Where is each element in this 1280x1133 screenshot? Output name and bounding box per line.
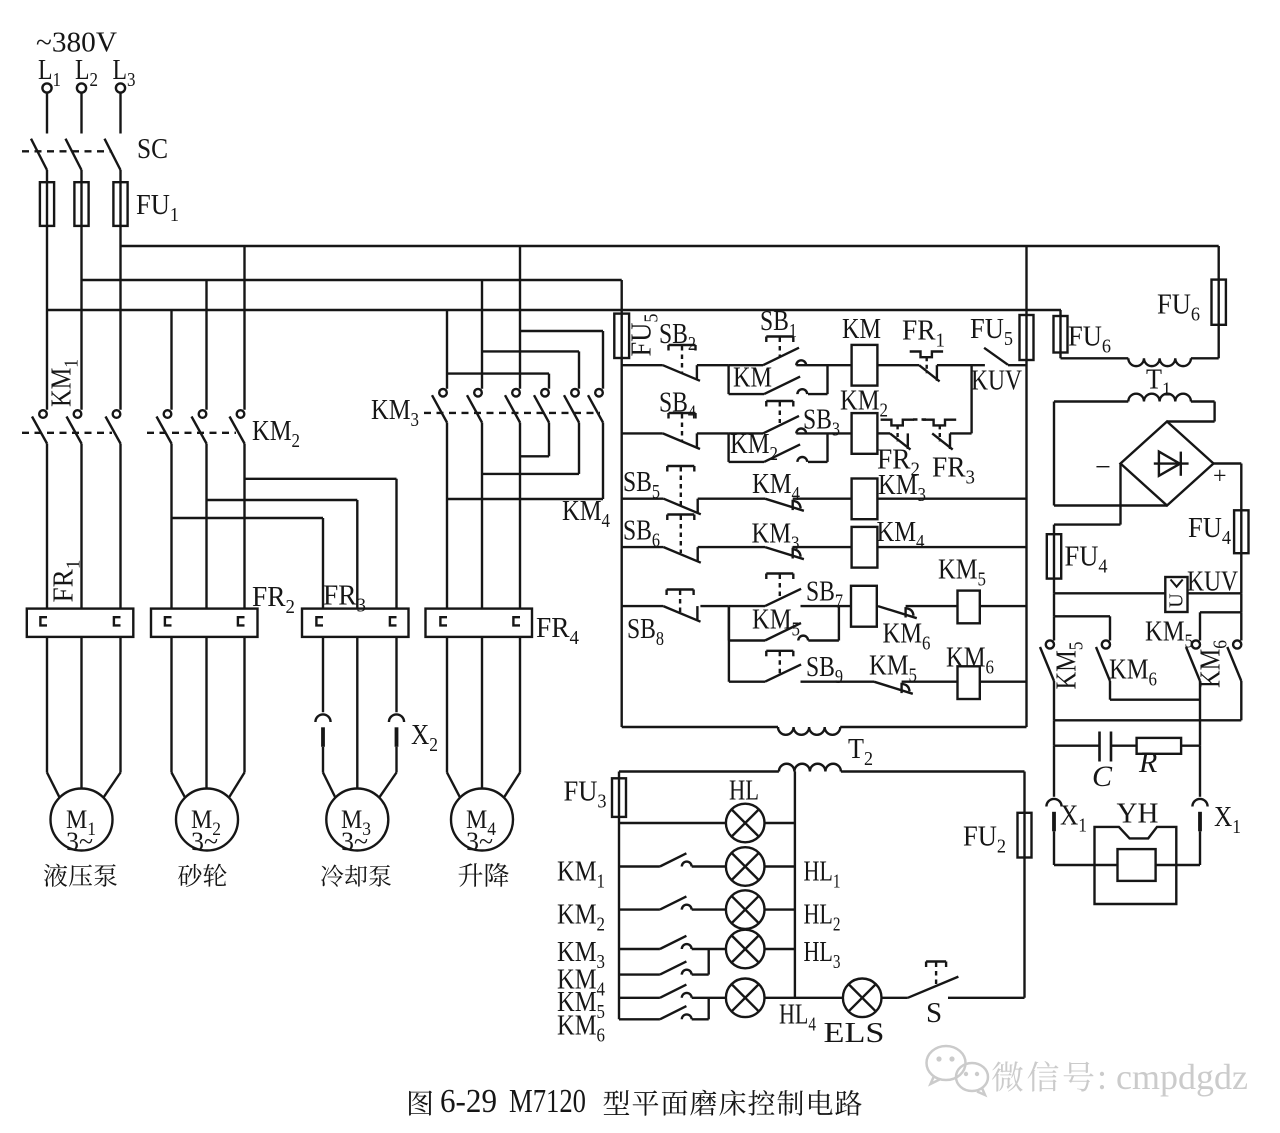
wire bus1 to FU5 right	[1025, 246, 1027, 315]
wire KM2 out 3	[243, 444, 245, 609]
wire KM4 out 2	[578, 423, 580, 474]
wire SB5 to KM4 interlock	[698, 498, 765, 500]
KM3 KM4 linkage	[424, 412, 600, 414]
wire L2 drop	[80, 93, 82, 134]
fuse FU5 right	[1025, 315, 1027, 360]
svg-text:3~: 3~	[191, 827, 218, 856]
svg-text:KM: KM	[842, 313, 881, 345]
transformer T2 secondary	[779, 764, 841, 772]
wire bridge minus to FU4 left	[1119, 464, 1121, 525]
contactor KM3-KM4 pole 3	[512, 389, 520, 397]
connector X1 left	[1046, 799, 1061, 807]
wire HL4 to ELS	[765, 997, 843, 999]
svg-text:KUV: KUV	[1187, 566, 1238, 598]
stop button SB4	[663, 433, 700, 449]
wire coil KM5 to rail	[980, 605, 1027, 607]
switch SC pole 3	[105, 139, 121, 170]
svg-text:KM: KM	[733, 362, 772, 394]
wire SB1 to coil KM	[729, 364, 763, 366]
thermal contact FR2	[890, 433, 911, 449]
contact KM6 chuck left	[1102, 640, 1110, 648]
svg-text:3~: 3~	[466, 827, 493, 856]
node rung1-rung2 tie	[970, 365, 972, 433]
control bottom rail	[622, 726, 778, 728]
wire FU4 right down	[1240, 553, 1242, 593]
wire rung2 left	[622, 432, 663, 434]
svg-text:3~: 3~	[341, 827, 368, 856]
motor M4 with wires	[446, 637, 448, 773]
coil left rung5	[851, 586, 877, 627]
wire KM3 out 2	[481, 423, 483, 609]
wire KM2 branch 3	[245, 478, 397, 480]
wire bus to KM3 pole3	[519, 246, 521, 389]
wire KM4 pole2 feed	[482, 350, 579, 352]
wire bus to KM2 pole3	[243, 246, 245, 410]
switch SC pole 2	[66, 139, 82, 170]
contactor KM1 pole 1	[39, 410, 47, 418]
wire T1 sec right to bridge	[1213, 402, 1215, 422]
lamp HL rung	[619, 822, 726, 824]
svg-text:HL: HL	[729, 775, 759, 807]
thermal relay FR1	[27, 609, 134, 637]
lamp HL	[726, 804, 765, 843]
wire rung1 left	[622, 364, 663, 366]
wire L1 to KM1	[46, 226, 48, 410]
lamp ELS	[843, 979, 882, 1018]
start button SB3	[763, 416, 799, 434]
watermark text	[992, 1061, 1023, 1091]
wire KM1 out 3	[119, 444, 121, 609]
aux contact KM2 self-hold	[727, 433, 729, 462]
motor M3 with wires	[356, 637, 358, 789]
wire bus to KM3 pole2	[481, 280, 483, 389]
svg-text:C: C	[1092, 760, 1113, 793]
svg-text:−: −	[1095, 452, 1111, 483]
undervoltage contact KUV	[984, 348, 1008, 365]
caption figure number	[409, 1090, 432, 1115]
label hydraulic pump	[44, 864, 67, 887]
stop button SB6	[664, 547, 701, 563]
wire L3 to KM1	[119, 226, 121, 410]
contact KM5 lamp	[619, 997, 660, 999]
coil KM5	[958, 591, 980, 624]
wire X1 left to chuck	[1053, 831, 1055, 865]
svg-text:ELS: ELS	[824, 1017, 885, 1049]
wire KM5 right bottom	[1199, 681, 1201, 720]
fuse FU1 pole 1	[46, 182, 48, 226]
stop button SB2	[663, 365, 700, 381]
wire R to right	[1181, 745, 1200, 747]
wire KM3 out 3	[519, 423, 521, 609]
fuse FU6 right	[1217, 280, 1219, 325]
connector X1 right	[1192, 799, 1207, 807]
contact KM2 lamp	[619, 908, 660, 910]
lamp HL2	[692, 908, 726, 910]
start button SB7	[765, 589, 801, 606]
svg-text:SC: SC	[137, 133, 168, 165]
wire KM4 pole3 feed	[520, 330, 603, 332]
wire KM1 out 2	[80, 444, 82, 609]
wire to X1 right	[1199, 746, 1201, 797]
contact KM1 lamp	[619, 865, 660, 867]
watermark wechat icon	[927, 1046, 989, 1095]
chuck YH coil	[1118, 849, 1156, 881]
wire FR1 to node	[937, 364, 985, 366]
bus L2 middle	[82, 279, 622, 281]
wire KM4 lamp join	[692, 973, 709, 975]
wire SB3 to coil KM2	[729, 432, 763, 434]
wire bus to KM3 pole1	[446, 310, 448, 389]
wire rung3 left	[622, 498, 664, 500]
connector X2 left pole	[322, 637, 324, 712]
relay KUV rung	[1054, 592, 1165, 594]
chuck YH body	[1095, 827, 1177, 904]
contactor KM1 pole 3	[113, 410, 121, 418]
start button SB9	[765, 664, 801, 681]
bus L3 top	[121, 245, 1219, 247]
wire KM2 branch 2	[207, 499, 358, 501]
relay coil KUV	[1165, 577, 1187, 612]
svg-text:6-29: 6-29	[440, 1083, 497, 1120]
wire KM6 lamp join	[692, 1018, 709, 1020]
contact KM3 lamp	[619, 948, 660, 950]
contactor KM3-KM4 pole 2	[474, 389, 482, 397]
svg-text:S: S	[926, 997, 942, 1029]
lamp HL3	[692, 948, 726, 950]
wire SB8 to branch	[700, 605, 729, 607]
wire KM2 branch 1	[172, 517, 324, 519]
contactor KM3-KM4 pole 4	[541, 389, 549, 397]
wire bus3 to FU6 left	[1059, 310, 1061, 316]
terminal L1	[42, 83, 51, 92]
transformer T1 primary	[1061, 357, 1129, 359]
wire to coil KM4	[793, 546, 852, 548]
connector X2 right pole	[395, 637, 397, 712]
wire FU2 bottom	[1023, 858, 1025, 998]
fuse FU1 pole 3	[119, 182, 121, 226]
wire right pair top	[1240, 593, 1242, 612]
switch S	[908, 977, 959, 998]
wire to coil KM3	[793, 498, 852, 500]
wire coil KM4 to rail	[877, 546, 1026, 548]
svg-text:+: +	[1213, 464, 1227, 490]
KM2 linkage	[147, 432, 236, 434]
wire C to R	[1111, 745, 1137, 747]
aux contact KM self-hold	[727, 365, 729, 394]
chuck supply rung	[1054, 719, 1241, 721]
fuse FU5 left	[621, 314, 623, 358]
wire KM4 out 1	[548, 423, 550, 457]
wire SB7 to coil	[729, 605, 765, 607]
aux contact KM5 self-hold	[728, 606, 730, 640]
motor M2 with wires	[170, 637, 172, 773]
wire FU6 right to T1	[1217, 325, 1219, 359]
contactor KM2 pole 3	[237, 410, 245, 418]
wire KM3 out 1	[446, 423, 448, 609]
wire FU4 left down	[1053, 579, 1055, 594]
wire SB9 to KM5 interlock	[801, 681, 875, 683]
interlock contact KM3	[765, 547, 804, 559]
wire FU6 left to T1	[1059, 353, 1061, 359]
contactor KM2 pole 2	[199, 410, 207, 418]
wire coil KM to FR1	[877, 364, 919, 366]
wire SB4 to branch	[697, 432, 729, 434]
wire KM2 out 1	[170, 444, 172, 609]
wire KM2 out 2	[205, 444, 207, 609]
wire ELS to S	[882, 997, 908, 999]
resistor R	[1137, 738, 1182, 754]
wire HL out	[765, 822, 795, 824]
link FR2-FR3	[913, 418, 926, 420]
control right rail	[1025, 360, 1027, 727]
wire coil KM6 to rail	[980, 681, 1027, 683]
bridge rectifier	[1121, 422, 1214, 506]
transformer T2 primary	[778, 727, 840, 735]
coil KM	[852, 345, 878, 386]
wire S to FU2	[948, 997, 1025, 999]
label lift	[459, 863, 483, 887]
motor M1 with wires	[46, 637, 48, 773]
interlock contact KM6	[877, 605, 878, 607]
contact KM6 chuck right	[1233, 640, 1241, 648]
wire coil KM3 to rail	[877, 498, 1026, 500]
start button SB1	[763, 348, 799, 366]
contactor KM1 pole 2	[74, 410, 82, 418]
coil KM3	[852, 479, 878, 520]
fuse FU6 left	[1059, 316, 1061, 353]
wire KM4 pole1 feed	[447, 372, 549, 374]
wire rung6 left	[729, 681, 765, 683]
terminal L2	[77, 83, 86, 92]
wire to RC branch	[1053, 720, 1055, 745]
wire KUV to KM5 left top	[1053, 593, 1055, 616]
caption title	[604, 1090, 630, 1115]
control left rail	[621, 358, 623, 727]
switch SC linkage	[22, 150, 112, 152]
wire to coil KM6	[902, 681, 958, 683]
contact KM5 chuck left	[1046, 640, 1054, 648]
KM1 linkage	[22, 432, 112, 434]
wire L3 drop	[119, 93, 121, 134]
wire KM6 right bottom	[1240, 681, 1242, 720]
fuse FU1 pole 2	[80, 182, 82, 226]
wire X1 right to chuck	[1199, 831, 1201, 865]
stop button SB8	[663, 606, 700, 622]
wire SB6 to KM3 interlock	[698, 546, 765, 548]
wire KM6 to coil KM5	[906, 605, 958, 607]
fuse FU4 right	[1240, 510, 1242, 553]
bus L1 lower	[47, 309, 1061, 311]
contactor KM3-KM4 pole 6	[595, 389, 603, 397]
wire rung5 left	[622, 605, 664, 607]
interlock contact KM4	[765, 499, 804, 511]
wire FR3 up to rung1	[950, 432, 972, 434]
terminal L3	[116, 83, 125, 92]
stop button SB5	[664, 499, 701, 515]
svg-text:3~: 3~	[66, 827, 93, 856]
wire KM1 out 1	[46, 444, 48, 609]
lamp HL4	[692, 997, 726, 999]
fuse FU2	[1023, 813, 1025, 858]
fuse FU4 left	[1053, 534, 1055, 578]
svg-text:~380V: ~380V	[36, 27, 117, 59]
coil KM2	[852, 413, 878, 454]
contactor KM3-KM4 pole 5	[571, 389, 579, 397]
thermal relay FR4	[426, 609, 533, 637]
coil KM6	[958, 666, 980, 699]
wire FU2 top	[1023, 772, 1025, 813]
wire rung4 left	[622, 546, 664, 548]
bridge diode symbol	[1154, 462, 1189, 464]
wire T1 sec left to bridge	[1053, 402, 1055, 506]
lamp HL1	[692, 865, 726, 867]
svg-text:YH: YH	[1117, 798, 1159, 830]
lamp common vertical	[794, 772, 796, 998]
branch vertical rung5-rung6	[728, 606, 730, 682]
wire to X1 left	[1053, 746, 1055, 797]
wire KM6 left bottom	[1109, 681, 1111, 700]
wire bus to KM2 pole2	[205, 280, 207, 410]
coil KM4	[852, 527, 878, 568]
transformer T1 secondary	[1054, 400, 1128, 402]
contact KM5 chuck right	[1192, 640, 1200, 648]
wire bus to KM2 pole1	[170, 310, 172, 410]
wire SB2 to branch	[697, 364, 729, 366]
svg-text:KUV: KUV	[971, 365, 1022, 397]
fuse FU3	[618, 778, 620, 817]
wire KM5 left bottom	[1053, 681, 1055, 720]
wire KM4 out 3	[602, 423, 604, 500]
thermal relay FR3	[302, 609, 409, 637]
lamp feed rail	[619, 770, 779, 772]
interlock contact KM5	[874, 682, 913, 694]
thermal relay FR2	[151, 609, 258, 637]
switch SC pole 1	[31, 139, 47, 170]
contact KM4 lamp	[619, 973, 660, 975]
lamp left rail top	[618, 772, 620, 779]
svg-text:M7120: M7120	[509, 1083, 586, 1120]
thermal contact FR1	[919, 365, 940, 381]
svg-text:U: U	[1166, 593, 1188, 608]
contactor KM3-KM4 pole 1	[439, 389, 447, 397]
label cooling pump	[321, 865, 343, 887]
svg-text:R: R	[1138, 746, 1157, 779]
capacitor C	[1098, 732, 1101, 762]
label grinding wheel	[178, 864, 201, 887]
wire coil KM2 to FR2	[877, 432, 890, 434]
lamp left rail	[618, 817, 620, 1019]
wire L2 to KM1	[80, 226, 82, 410]
wire bridge plus to FU4 right	[1214, 462, 1242, 464]
wire bus2 to FU5 left	[621, 280, 623, 314]
thermal contact FR3	[932, 433, 953, 449]
wire bus1 to FU6 right	[1217, 246, 1219, 280]
contactor KM2 pole 1	[164, 410, 172, 418]
svg-text:: cmpdgdz: : cmpdgdz	[1097, 1057, 1248, 1097]
contact KM6 lamp	[619, 1018, 660, 1020]
wire L1 drop	[46, 93, 48, 134]
